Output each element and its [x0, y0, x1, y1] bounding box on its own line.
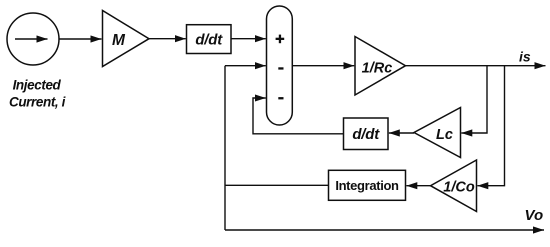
- svg-text:M: M: [112, 32, 126, 49]
- svg-text:is: is: [519, 49, 531, 65]
- svg-text:Lc: Lc: [436, 127, 453, 143]
- svg-text:1/Rc: 1/Rc: [362, 60, 393, 76]
- svg-text:d/dt: d/dt: [352, 126, 380, 143]
- svg-text:Current, i: Current, i: [9, 95, 66, 110]
- svg-text:Injected: Injected: [13, 78, 62, 93]
- svg-text:d/dt: d/dt: [195, 32, 223, 49]
- svg-text:Vo: Vo: [525, 207, 544, 224]
- svg-text:1/Co: 1/Co: [443, 180, 475, 196]
- svg-text:Integration: Integration: [335, 178, 399, 193]
